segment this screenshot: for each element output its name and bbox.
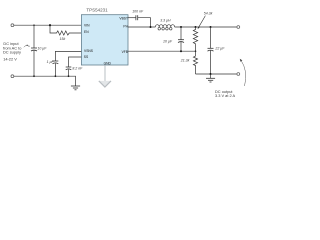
annotation DC output bbox=[215, 59, 246, 98]
wire input rail bbox=[14, 24, 81, 26]
inductor L1 3.3uH bbox=[155, 19, 174, 30]
resistor R3 21.3k lower feedback bbox=[180, 51, 198, 74]
capacitor C2 1uF on VSNS pin bbox=[47, 51, 82, 76]
input terminal bottom bbox=[11, 75, 14, 78]
resistor R1 15k bbox=[50, 25, 81, 41]
capacitor C5 10uF output bbox=[163, 27, 184, 51]
IC U1 TPS54231 bbox=[81, 7, 128, 65]
node boot cap to PH bbox=[150, 26, 152, 28]
svg-text:3.3 V at 2 A: 3.3 V at 2 A bbox=[215, 93, 236, 98]
svg-text:21.3k: 21.3k bbox=[180, 58, 190, 62]
capacitor C6 22uF bbox=[208, 27, 226, 74]
svg-text:VFB: VFB bbox=[122, 50, 129, 54]
svg-text:10 µF: 10 µF bbox=[37, 46, 47, 50]
node ground right bbox=[210, 73, 212, 75]
node divider mid bbox=[195, 50, 197, 52]
node C5 top bbox=[180, 26, 182, 28]
svg-text:15k: 15k bbox=[60, 37, 66, 41]
svg-text:3.3 µH: 3.3 µH bbox=[160, 19, 171, 23]
capacitor C3 8.2nF on SS pin bbox=[66, 57, 83, 76]
ground right bbox=[206, 74, 215, 82]
node input cap junction bbox=[33, 24, 35, 26]
node C3 bottom bbox=[68, 75, 70, 77]
wire bottom-right ground rail bbox=[196, 73, 237, 75]
ground left bbox=[71, 86, 80, 90]
capacitor C4 100nF boot bbox=[128, 9, 151, 27]
svg-text:PH: PH bbox=[123, 25, 128, 29]
svg-text:100 nF: 100 nF bbox=[132, 9, 144, 13]
wire bottom-left ground rail bbox=[14, 76, 76, 86]
svg-text:DC supply: DC supply bbox=[3, 50, 21, 55]
input terminal top bbox=[11, 24, 14, 27]
node EN branch junction bbox=[49, 24, 51, 26]
capacitor C1 10uF input bbox=[28, 25, 47, 76]
svg-text:8.2 nF: 8.2 nF bbox=[72, 67, 83, 71]
svg-text:VSNS: VSNS bbox=[84, 49, 94, 53]
wire VFB to divider bbox=[128, 50, 196, 52]
ground arrow under IC GND bbox=[99, 65, 111, 87]
svg-text:22 µF: 22 µF bbox=[214, 47, 225, 51]
svg-text:54.3k: 54.3k bbox=[204, 11, 213, 15]
svg-text:VBST: VBST bbox=[119, 16, 128, 20]
node C2 bottom bbox=[55, 75, 57, 77]
resistor R2 54.3k upper feedback bbox=[193, 11, 212, 51]
wire output rail bbox=[175, 26, 237, 28]
svg-text:VIN: VIN bbox=[84, 24, 90, 28]
annotation DC input bbox=[3, 41, 29, 61]
output terminal top bbox=[237, 26, 240, 29]
node C1 bottom bbox=[33, 75, 35, 77]
svg-text:+: + bbox=[28, 45, 30, 49]
svg-text:1 µF: 1 µF bbox=[47, 60, 55, 64]
wire PH to inductor bbox=[128, 26, 155, 28]
svg-text:10 µF: 10 µF bbox=[163, 39, 173, 43]
node C6 top bbox=[210, 26, 212, 28]
output terminal bottom bbox=[237, 73, 240, 76]
node C5 bottom on VFB wire bbox=[180, 50, 182, 52]
svg-text:TPS54231: TPS54231 bbox=[86, 7, 108, 12]
node R2 top bbox=[195, 26, 197, 28]
svg-text:14-22 V: 14-22 V bbox=[3, 56, 17, 61]
svg-text:GND: GND bbox=[104, 61, 112, 65]
svg-text:EN: EN bbox=[84, 30, 89, 34]
